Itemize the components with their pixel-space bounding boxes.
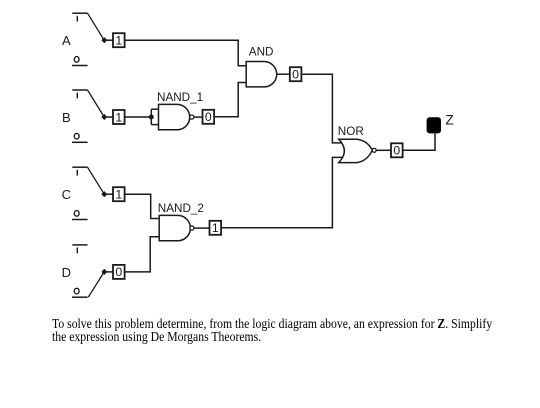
wire pole to value box of D [104,271,113,273]
switch B "1" tick label [76,93,78,99]
stub to NAND_1 input 2 [151,124,158,126]
switch D pole dot [101,269,107,275]
Z output probe (filled square) [427,117,441,133]
wire NAND_1 out to AND bottom input [214,83,246,117]
switch A pole dot [101,37,107,43]
svg-text:0: 0 [393,144,400,158]
value box C = 1 [113,187,125,201]
caption text [52,318,540,343]
wire AND output to value box [277,73,290,75]
value box A = 1 [113,33,125,47]
svg-text:C: C [62,187,71,202]
svg-text:D: D [62,265,71,280]
switch C "0" contact line [72,219,88,221]
switch C "o" label [74,211,79,217]
switch C lever [88,167,105,194]
wire AND out to NOR top input [301,74,342,143]
wire NOR out to value box [376,149,391,151]
svg-text:1: 1 [115,34,122,48]
switch A lever [88,13,105,40]
NAND_1 output bubble [190,115,194,119]
NOR gate body [339,139,373,162]
svg-text:NAND_2: NAND_2 [158,202,204,215]
wire pole to value box of B [104,116,113,118]
NAND_2 gate body [159,215,190,240]
wire NAND_2 out to NOR bottom input [221,157,342,227]
value box B = 1 [113,110,125,124]
switch D "0" contact line [72,296,88,298]
junction dot NAND_1 inputs [149,115,154,120]
wire B to NAND_1 input junction [125,116,150,118]
switch D group [62,245,113,297]
NAND_1 input tie bar [150,109,152,124]
svg-text:A: A [62,33,71,48]
AND gate [246,62,277,87]
switch D "o" label [74,288,79,294]
svg-text:0: 0 [292,68,299,82]
switch C "1" contact line [72,166,87,168]
wire A to AND top input [125,40,246,66]
switch A "0" contact line [72,65,88,67]
switch C "1" tick label [76,170,78,176]
wire C to NAND_2 top input [125,194,159,218]
wire NAND_1 out to value box [194,116,203,118]
switch D "1" tick label [76,248,78,254]
value box NAND_1 output = 0 [203,110,215,124]
switch B group [62,90,113,142]
stub to NAND_1 input 1 [151,108,158,110]
svg-text:B: B [62,110,71,125]
wire pole to value box of C [104,193,113,195]
svg-text:0: 0 [115,265,122,279]
wire NAND_2 out to value box [194,227,210,229]
NOR output bubble [372,148,376,152]
NAND_1 gate body [159,104,190,129]
svg-text:0: 0 [205,110,212,124]
switch A "o" label [74,57,79,63]
value box NOR output = 0 [391,143,403,157]
switch B "0" contact line [72,141,88,143]
switch D "1" contact line [72,244,87,246]
svg-text:NOR: NOR [338,125,364,138]
switch B "o" label [74,133,79,139]
NAND_2 output bubble [190,226,194,230]
switch C pole dot [101,191,107,197]
svg-text:1: 1 [115,110,122,124]
svg-text:1: 1 [115,188,122,202]
svg-text:NAND_1: NAND_1 [157,91,203,104]
value box AND output = 0 [290,67,302,81]
switch A "1" tick label [76,16,78,22]
wire D to NAND_2 bottom input [125,237,160,272]
switch B pole dot [101,114,107,120]
value box NAND_2 output = 1 [210,221,222,235]
switch A group [62,13,113,65]
svg-text:AND: AND [249,46,274,59]
switch A "1" contact line [72,12,87,14]
switch B lever [88,90,105,117]
wire NOR out up to Z probe [403,134,435,151]
value box D = 0 [113,265,125,279]
wire pole to value box of A [104,39,113,41]
switch C group [62,167,113,219]
svg-text:1: 1 [212,221,219,235]
switch B "1" contact line [72,89,87,91]
svg-text:Z: Z [446,113,454,128]
switch D lever [88,272,104,297]
